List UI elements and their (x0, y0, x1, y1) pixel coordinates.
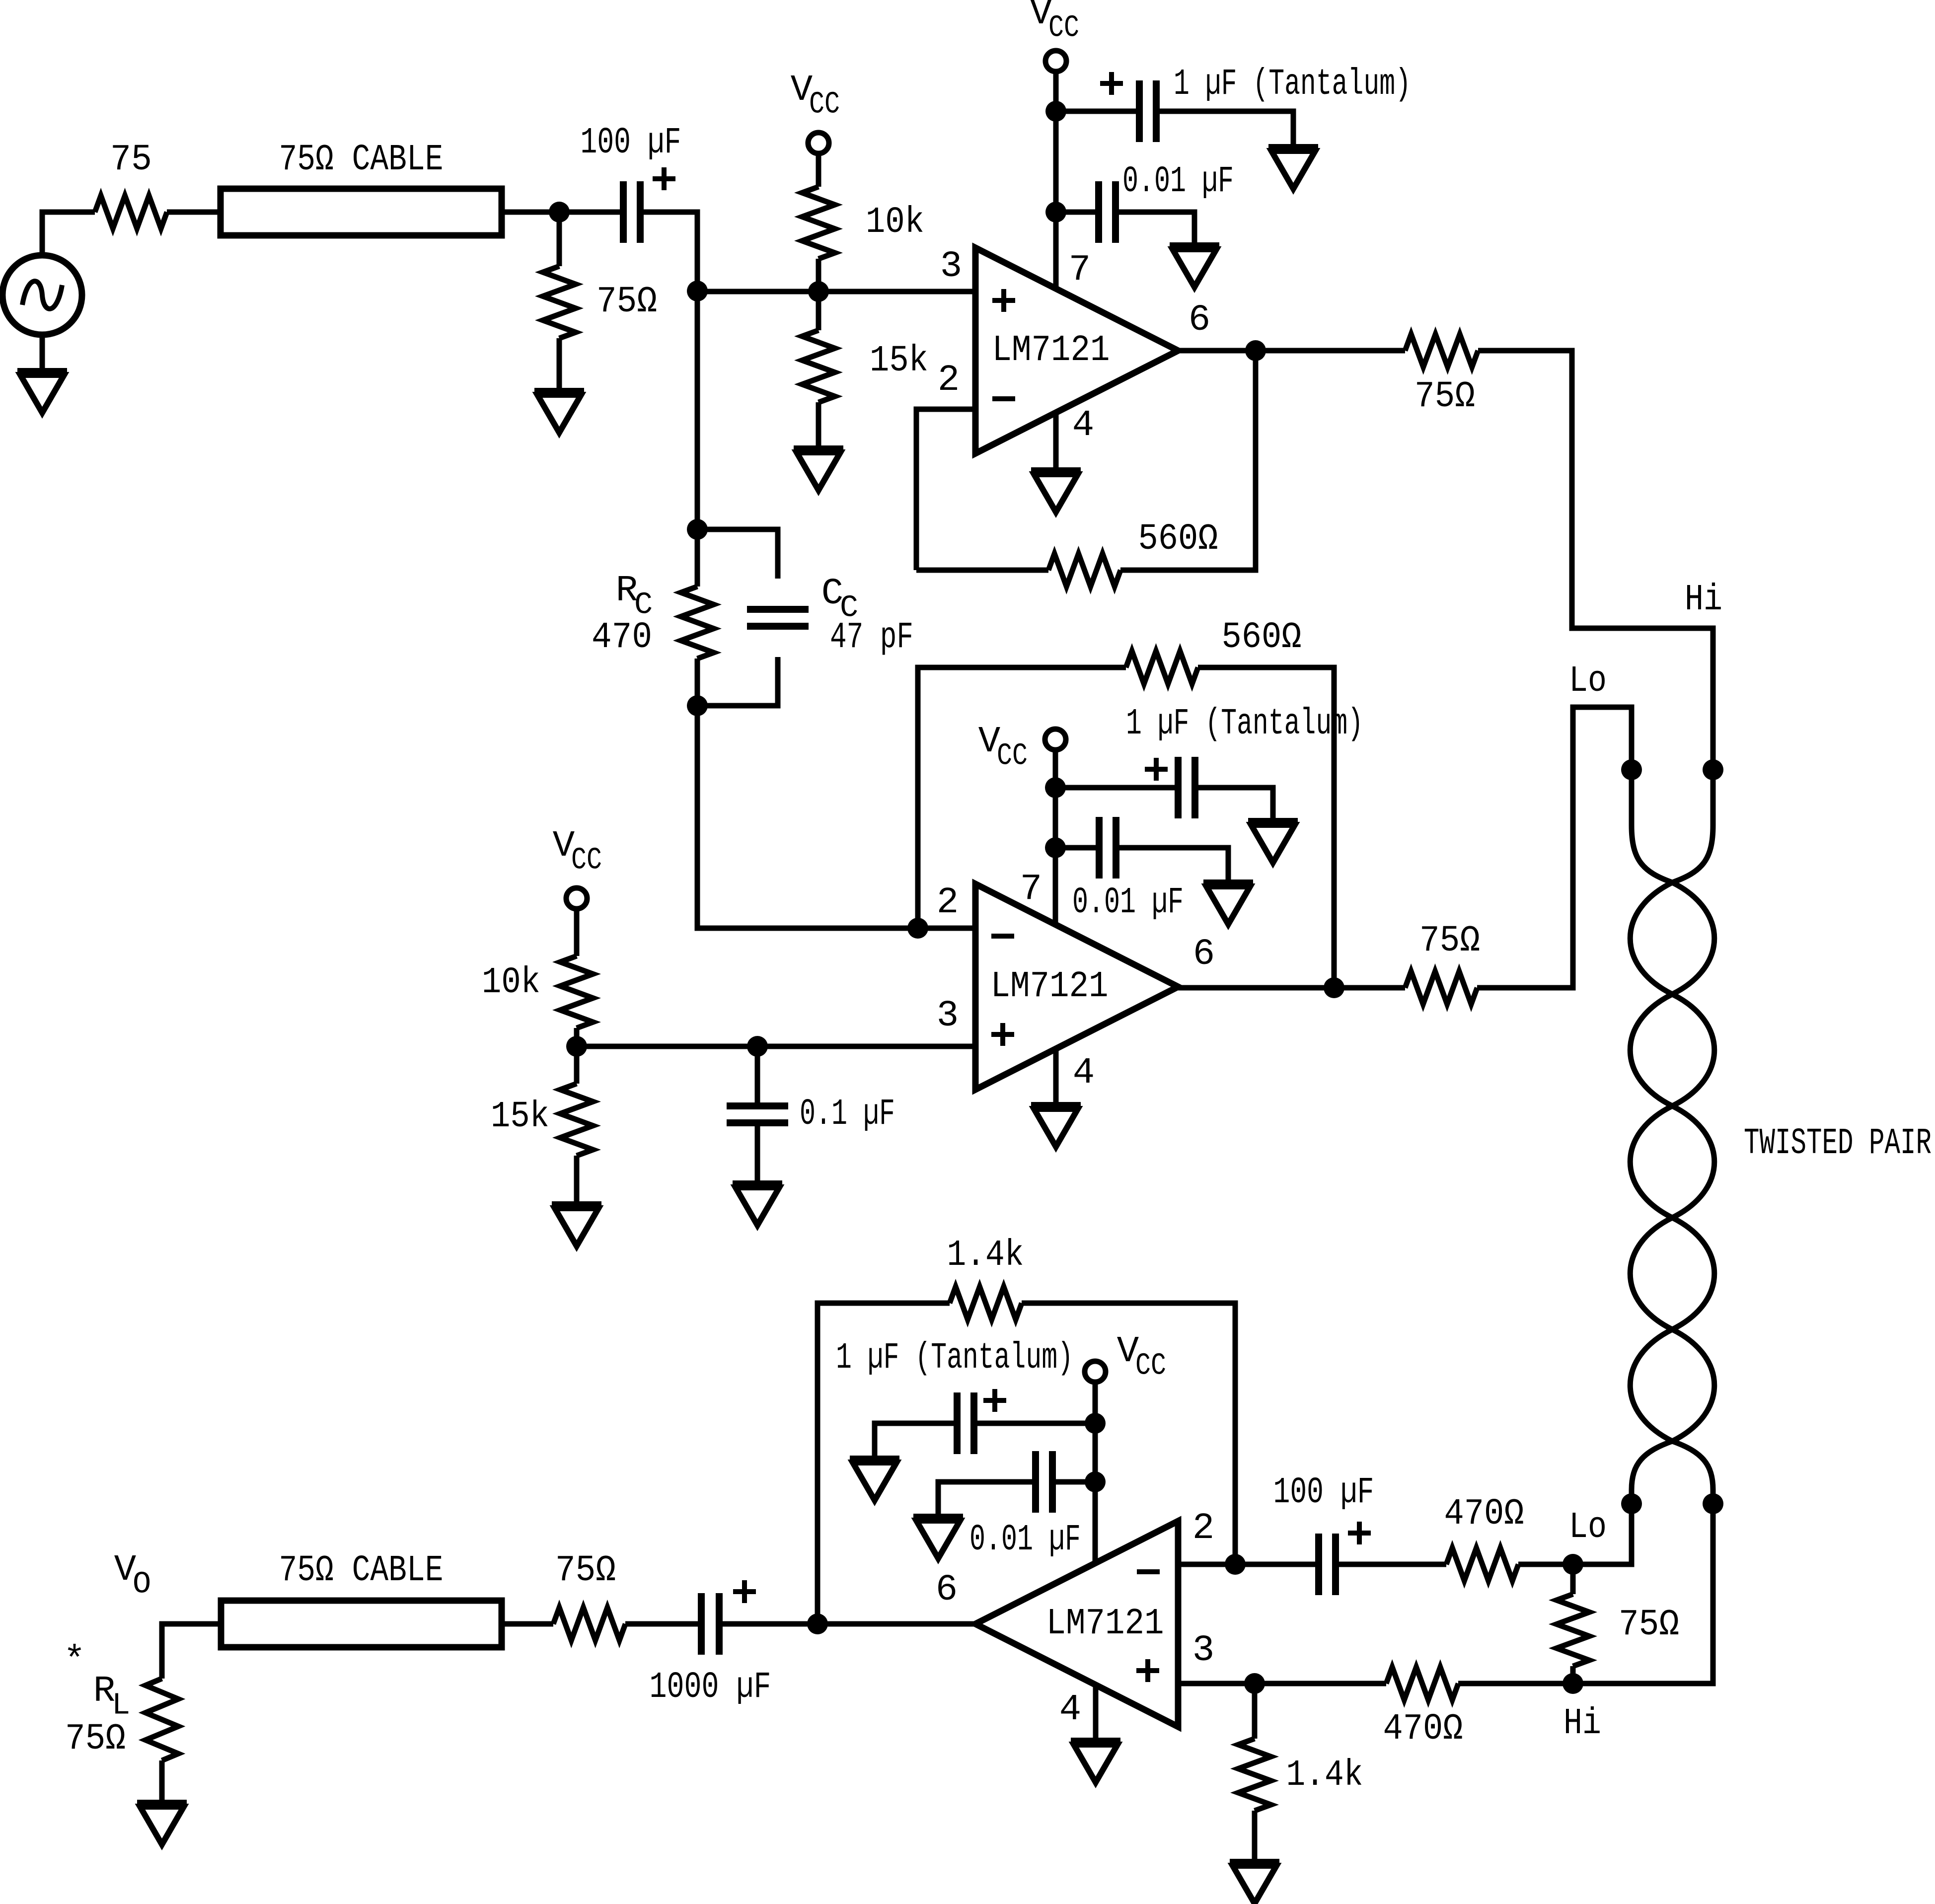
wire (695, 529, 700, 706)
svg-text:470Ω: 470Ω (1444, 1493, 1524, 1535)
wire (U2 pin2 row) (918, 926, 975, 931)
resistor 75 ohm cable termination (543, 266, 657, 338)
resistor 10k (U2 bias) (482, 956, 593, 1028)
power VCC terminal (U2 bias divider) (553, 825, 602, 909)
capacitor 0.01 uF (U1 bypass) (1056, 161, 1234, 245)
svg-text:100 µF: 100 µF (581, 122, 681, 164)
node (twisted pair top right) (1703, 759, 1723, 780)
capacitor 1 uF tantalum (U1 bypass) (1056, 64, 1411, 147)
resistor 75 ohm (back termination) (553, 1550, 625, 1640)
ground (U3 0.01uF bypass) (913, 1517, 963, 1558)
svg-text:CC: CC (997, 738, 1028, 774)
svg-text:1.4k: 1.4k (1286, 1755, 1363, 1796)
svg-text:4: 4 (1073, 1052, 1095, 1094)
wire (644, 212, 697, 291)
svg-text:2: 2 (937, 882, 959, 924)
resistor 1.4k (U3 feedback) (947, 1235, 1024, 1319)
twisted pair wire A (1630, 770, 1714, 1504)
svg-text:Hi: Hi (1563, 1703, 1601, 1745)
svg-text:560Ω: 560Ω (1222, 617, 1302, 659)
ground (load) (137, 1803, 187, 1844)
svg-text:CC: CC (809, 87, 840, 122)
ground (U2 pin 4) (1031, 1105, 1081, 1147)
node (U1 pin3 net) (687, 281, 708, 301)
resistor 75 source series (95, 139, 167, 228)
svg-text:75Ω: 75Ω (555, 1550, 616, 1592)
resistor 75 ohm (U1 line) (1405, 334, 1478, 418)
svg-text:47 pF: 47 pF (830, 617, 913, 659)
svg-text:L: L (112, 1688, 130, 1723)
wire (816, 153, 821, 187)
svg-text:CC: CC (1048, 10, 1079, 46)
wire (Hi run) (1478, 351, 1713, 770)
svg-text:3: 3 (937, 995, 959, 1037)
ground (U2 0.01uF bypass) (1203, 882, 1253, 924)
wire (U1 pin 7) (1053, 72, 1059, 289)
node (U2 output) (1324, 977, 1344, 998)
svg-text:2: 2 (1192, 1508, 1214, 1549)
wire (U3 feedback left) (818, 1303, 950, 1624)
wire (574, 1028, 580, 1046)
wire (816, 259, 821, 292)
wire (VO) (162, 1624, 221, 1679)
node (U2 VCC a) (1045, 777, 1066, 798)
ground (U2 1uF bypass) (1248, 821, 1298, 863)
svg-text:TWISTED PAIR: TWISTED PAIR (1744, 1123, 1932, 1165)
wire (pin 3 input row) (697, 289, 975, 294)
node (U2 VCC b) (1045, 837, 1066, 858)
wire (Lo bottom link) (1573, 1504, 1632, 1564)
svg-text:1 µF (Tantalum): 1 µF (Tantalum) (1174, 64, 1411, 105)
svg-text:CC: CC (571, 843, 602, 878)
node (U1 VCC b) (1045, 202, 1066, 222)
wire (1518, 1562, 1573, 1567)
svg-text:6: 6 (936, 1569, 958, 1611)
AC signal source VG (2, 255, 82, 335)
wire (502, 210, 620, 215)
svg-text:4: 4 (1072, 405, 1094, 446)
node (compensation top) (687, 519, 708, 540)
ground (U1 0.01uF bypass) (1170, 245, 1219, 287)
svg-text:0.01 µF: 0.01 µF (1072, 882, 1184, 924)
ground (U3 pin 4) (1071, 1741, 1120, 1782)
transmission line 75 ohm cable (bottom) (221, 1550, 502, 1647)
wire (42, 212, 95, 255)
svg-text:2: 2 (938, 360, 960, 401)
wire (574, 1156, 580, 1204)
node Hi label (top) (1685, 579, 1722, 621)
wire (U2 pin 4) (1053, 1049, 1059, 1105)
power VCC terminal (U2) (978, 721, 1066, 774)
node (U1 output) (1245, 340, 1266, 361)
node (U3 VCC b) (1085, 1471, 1106, 1492)
node (U1 VCC a) (1045, 101, 1066, 122)
resistor 75 ohm (U2 line) (1405, 920, 1480, 1004)
resistor 560 ohm (U2 feedback) (1126, 617, 1302, 684)
svg-text:0.1 µF: 0.1 µF (800, 1094, 895, 1135)
wire (816, 292, 821, 330)
capacitor 100 uF input coupling (581, 122, 681, 243)
svg-text:15k: 15k (491, 1096, 549, 1138)
svg-text:1 µF (Tantalum): 1 µF (Tantalum) (836, 1337, 1073, 1379)
svg-text:CC: CC (1135, 1348, 1166, 1384)
svg-text:4: 4 (1059, 1689, 1081, 1731)
ground (source) (17, 335, 67, 413)
wire (U2 feedback left) (918, 667, 1126, 928)
ground (U3 bias) (1230, 1862, 1279, 1904)
svg-text:Lo: Lo (1569, 1507, 1607, 1548)
svg-text:3: 3 (1192, 1630, 1214, 1672)
wire (U1 feedback right) (1120, 351, 1256, 570)
node (compensation bottom) (687, 695, 708, 716)
resistor RL 75 ohm (load) (64, 1640, 178, 1760)
ground (U2 bias divider) (552, 1204, 601, 1246)
node (U2 bias midpoint) (566, 1036, 587, 1057)
node (U3 VCC a) (1085, 1413, 1106, 1434)
wire (U2 feedback right) (1198, 667, 1334, 988)
wire (U3 pin2 row) (1178, 1562, 1235, 1567)
capacitor CC 47 pF (697, 529, 913, 706)
wire (574, 1046, 580, 1084)
wire (U3 pin 4) (1093, 1685, 1099, 1741)
node (U3 output) (807, 1613, 828, 1634)
wire (U3 feedback right) (1022, 1303, 1235, 1564)
svg-text:LM7121: LM7121 (991, 966, 1109, 1008)
wire (159, 1760, 165, 1803)
node Lo label (top) (1569, 660, 1607, 702)
capacitor 0.01 uF (U3 bypass) (938, 1451, 1095, 1561)
svg-text:0.01 µF: 0.01 µF (1122, 161, 1234, 203)
node (0.1uF tap) (747, 1036, 768, 1057)
node (U1 bias midpoint) (808, 281, 829, 302)
power VCC terminal (U3) (1085, 1331, 1166, 1384)
capacitor 100 uF (receive coupling) (1235, 1472, 1446, 1595)
svg-text:1.4k: 1.4k (947, 1235, 1024, 1276)
node (cable termination) (549, 202, 570, 222)
wire (557, 338, 562, 391)
svg-text:75Ω CABLE: 75Ω CABLE (279, 139, 444, 181)
node (U2 pin 2) (907, 918, 928, 939)
capacitor 1 uF tantalum (U2 bypass) (1055, 703, 1363, 821)
svg-text:6: 6 (1189, 299, 1210, 341)
wire (Lo run) (1477, 707, 1632, 988)
ground (U1 1uF bypass) (1268, 147, 1318, 189)
ground (U1 bias divider) (794, 448, 843, 490)
svg-text:3: 3 (940, 246, 962, 288)
svg-text:75Ω: 75Ω (65, 1718, 126, 1760)
svg-text:*: * (64, 1640, 85, 1682)
resistor RC 470 (592, 570, 714, 659)
wire (U3 pin3 row) (1178, 1681, 1573, 1686)
svg-text:1 µF (Tantalum): 1 µF (Tantalum) (1126, 703, 1363, 745)
svg-text:7: 7 (1069, 249, 1091, 291)
op-amp U2 LM7121 (937, 869, 1215, 1094)
capacitor 0.1 uF (U2 bias decouple) (727, 1046, 895, 1183)
wire (167, 210, 221, 215)
node (twisted pair top left) (1621, 759, 1642, 780)
capacitor 1000 uF (output coupling) (650, 1580, 771, 1708)
svg-text:6: 6 (1193, 934, 1215, 975)
node (twisted pair bottom right) (1703, 1493, 1723, 1514)
wire (U2 output) (1178, 985, 1405, 991)
power VCC terminal (U1) (1030, 0, 1079, 72)
wire (U2 pin 7) (1053, 750, 1058, 924)
wire (1570, 1564, 1576, 1684)
wire (compensation net vertical) (695, 291, 700, 529)
svg-text:LM7121: LM7121 (992, 330, 1110, 371)
svg-text:LM7121: LM7121 (1046, 1603, 1164, 1645)
resistor 1.4k (U3 bias) (1238, 1684, 1363, 1862)
resistor 15k (U2 bias) (491, 1084, 593, 1156)
wire (Hi bottom link) (1573, 1504, 1713, 1684)
svg-text:75Ω: 75Ω (596, 281, 657, 323)
wire (502, 1621, 553, 1627)
node (U3 pin 2) (1225, 1554, 1246, 1575)
wire (U1 pin 4) (1053, 413, 1059, 470)
ground (0.1uF) (733, 1183, 782, 1225)
svg-text:560Ω: 560Ω (1138, 518, 1218, 560)
wire (816, 402, 821, 448)
svg-text:470: 470 (592, 617, 652, 659)
svg-text:75: 75 (110, 139, 152, 181)
wire (U3 output) (723, 1621, 975, 1627)
svg-text:10k: 10k (482, 962, 540, 1004)
resistor 10k (U1 bias) (802, 187, 924, 259)
svg-text:Hi: Hi (1685, 579, 1722, 621)
wire (557, 212, 562, 266)
svg-text:1000 µF: 1000 µF (650, 1667, 771, 1708)
capacitor 0.01 uF (U2 bypass) (1055, 817, 1228, 924)
ground (U3 1uF bypass) (850, 1459, 899, 1500)
svg-text:75Ω: 75Ω (1419, 920, 1480, 962)
node Lo (receive) (1563, 1507, 1607, 1575)
ground (cable termination) (534, 391, 584, 433)
twisted pair wire B (1630, 770, 1714, 1504)
svg-text:75Ω: 75Ω (1619, 1604, 1679, 1646)
wire (625, 1621, 698, 1627)
transmission line 75 ohm cable (top) (221, 139, 502, 235)
node Hi (receive) (1563, 1673, 1601, 1745)
op-amp U1 LM7121 (938, 246, 1210, 453)
wire (574, 909, 580, 956)
wire (U1 feedback left) (916, 568, 1048, 573)
svg-text:470Ω: 470Ω (1383, 1708, 1463, 1750)
wire (U1 output) (1178, 348, 1405, 354)
svg-text:0.01 µF: 0.01 µF (969, 1519, 1081, 1561)
wire (U3 pin 7) (1093, 1382, 1098, 1563)
svg-text:10k: 10k (866, 202, 924, 243)
resistor 560 ohm (U1 feedback) (1048, 518, 1218, 586)
svg-text:75Ω: 75Ω (1414, 376, 1475, 418)
svg-text:7: 7 (1020, 869, 1042, 910)
node (twisted pair bottom left) (1621, 1493, 1642, 1514)
op-amp U3 LM7121 (936, 1508, 1214, 1731)
wire (U1 pin 2 stub) (916, 409, 975, 570)
wire (697, 706, 918, 928)
svg-text:75Ω CABLE: 75Ω CABLE (279, 1550, 444, 1592)
twisted pair label (1744, 1123, 1932, 1165)
resistor 470 ohm (U3 inverting input) (1444, 1493, 1524, 1581)
resistor 470 ohm (U3 non-inverting input) (1383, 1667, 1463, 1750)
wire (U2 pin3 row) (577, 1044, 975, 1049)
svg-text:O: O (133, 1567, 151, 1602)
power VCC terminal (U1 bias divider) (791, 70, 840, 153)
svg-text:15k: 15k (870, 340, 928, 382)
svg-text:100 µF: 100 µF (1273, 1472, 1374, 1514)
node (U3 pin 3) (1244, 1673, 1265, 1694)
node VO label (114, 1549, 151, 1602)
resistor 75 ohm (line termination) (1557, 1594, 1679, 1666)
svg-text:Lo: Lo (1569, 660, 1607, 702)
resistor 15k (U1 bias) (802, 330, 928, 402)
capacitor 1 uF tantalum (U3 bypass) (836, 1337, 1095, 1459)
ground (U1 pin 4) (1031, 470, 1081, 512)
